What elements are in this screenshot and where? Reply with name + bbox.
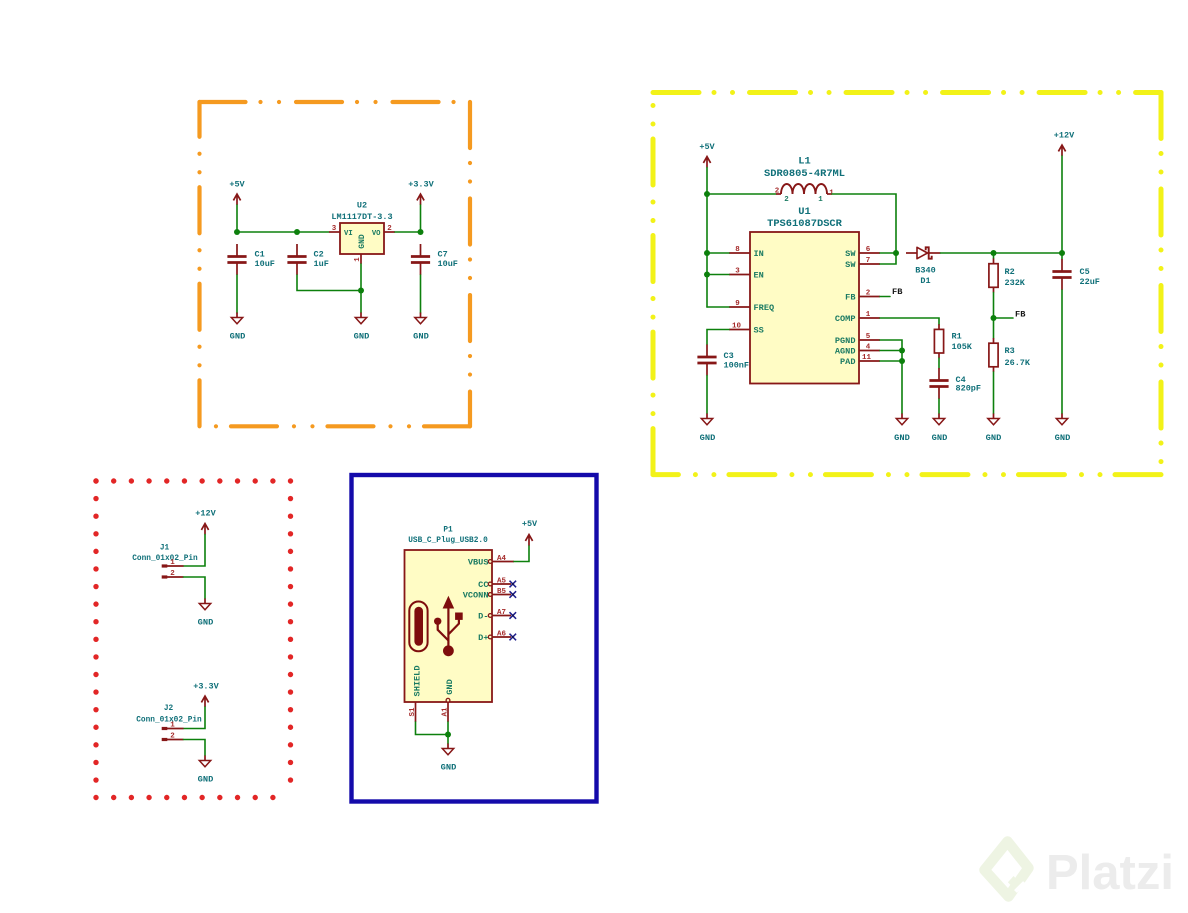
svg-text:+3.3V: +3.3V (408, 179, 434, 189)
connector J2 Conn_01x02_Pin (136, 705, 202, 725)
power +12V (J1) (195, 509, 216, 535)
wire FREQ (707, 306, 729, 308)
junction at IN (704, 250, 710, 256)
junction at C1 top (234, 229, 240, 235)
capacitor C2 (287, 244, 328, 275)
junction FB divider (991, 315, 997, 321)
resistor R3 (989, 338, 1031, 372)
wire SW6 (880, 252, 896, 254)
U1 pin 5 PGND (835, 333, 880, 346)
ground symbol C3 (700, 414, 716, 443)
Platzi watermark logo (985, 842, 1029, 897)
connector J1 Conn_01x02_Pin (132, 544, 198, 563)
junction at C7 top (418, 229, 424, 235)
svg-text:C5: C5 (1080, 267, 1090, 277)
svg-text:FB: FB (892, 287, 903, 297)
svg-text:CC: CC (478, 580, 488, 590)
svg-text:R1: R1 (952, 331, 962, 341)
ground symbol C7 (413, 313, 429, 342)
svg-text:26.7K: 26.7K (1005, 358, 1031, 368)
svg-text:IN: IN (754, 249, 764, 259)
svg-text:COMP: COMP (835, 314, 856, 324)
svg-text:6: 6 (866, 246, 871, 254)
junction at R2 top (991, 250, 997, 256)
P1 pin B5 VCONN (463, 588, 511, 600)
wire C3 to ground (706, 376, 708, 414)
P1 pin A5 CC (478, 578, 511, 590)
svg-text:P1: P1 (443, 526, 453, 534)
power +12V (boost output) (1054, 130, 1075, 156)
wire C5 to ground (1061, 290, 1063, 414)
red dotted section border frame (96, 481, 291, 798)
blue section border frame (352, 475, 597, 802)
svg-text:R3: R3 (1005, 346, 1015, 356)
svg-text:8: 8 (735, 246, 740, 254)
junction PAD (899, 358, 905, 364)
svg-text:AGND: AGND (835, 346, 856, 356)
U1 pin 6 SW (845, 246, 880, 259)
wire PGND down (880, 340, 902, 414)
ground symbol J2 (198, 756, 214, 785)
svg-text:1uF: 1uF (314, 259, 329, 269)
svg-text:SW: SW (845, 260, 856, 270)
power +3.3V (J2) (193, 682, 219, 707)
wire J2 pin 2 to ground (184, 740, 206, 756)
svg-text:5: 5 (866, 333, 871, 341)
wire +5V rail vertical (706, 168, 708, 308)
svg-text:VBUS: VBUS (468, 557, 489, 567)
junction AGND (899, 348, 905, 354)
svg-text:EN: EN (754, 270, 764, 280)
svg-text:B340: B340 (915, 265, 935, 275)
op-amp U1 TPS61087DSCR body (750, 206, 859, 384)
svg-text:GND: GND (198, 775, 214, 785)
svg-text:J2: J2 (164, 705, 174, 713)
svg-text:820pF: 820pF (956, 383, 982, 393)
U1 pin 3 EN (729, 268, 764, 281)
wire FB stub (880, 296, 890, 298)
svg-text:J1: J1 (160, 544, 170, 552)
svg-text:R2: R2 (1005, 267, 1015, 277)
wire +5V to input rail (236, 205, 238, 232)
wire C4 to ground (938, 399, 940, 414)
svg-text:3: 3 (735, 268, 740, 276)
ground symbol J1 (198, 599, 214, 628)
svg-text:SW: SW (845, 249, 856, 259)
svg-text:C2: C2 (314, 249, 324, 259)
U1 pin 8 IN (729, 246, 764, 259)
svg-text:D+: D+ (478, 633, 488, 643)
svg-text:C3: C3 (724, 351, 734, 361)
op-amp U2 LM1117DT-3.3 body (331, 200, 392, 254)
svg-text:+12V: +12V (1054, 130, 1075, 140)
svg-text:GND: GND (413, 331, 429, 341)
wire diode to output node (941, 252, 1063, 254)
ground symbol PGND (894, 414, 910, 443)
wire EN (707, 274, 729, 276)
svg-text:GND: GND (1055, 433, 1071, 443)
svg-text:A1: A1 (442, 707, 450, 717)
wire IN (707, 252, 729, 254)
capacitor C3 (697, 345, 749, 376)
J2 pin 1 (162, 722, 184, 731)
U1 pin 2 FB (845, 290, 880, 303)
J1 pin 1 (162, 559, 184, 568)
wire +3.3V to rail (420, 205, 422, 232)
ground symbol C4 (932, 414, 948, 443)
svg-text:232K: 232K (1005, 278, 1026, 288)
svg-text:B5: B5 (497, 588, 507, 596)
wire SW7 up to SW node (880, 253, 896, 264)
svg-text:1: 1 (170, 722, 175, 730)
wire R3 to ground (993, 372, 995, 414)
P1 pin S1 SHIELD (409, 666, 422, 722)
svg-text:+3.3V: +3.3V (193, 682, 219, 692)
wire L1 to SW node (832, 194, 896, 253)
power +5V (boost input) (699, 142, 715, 168)
svg-text:FREQ: FREQ (754, 303, 775, 313)
svg-text:3: 3 (332, 225, 337, 233)
wire J1 pin 2 to ground (184, 577, 206, 599)
U1 pin 11 PAD (840, 354, 880, 367)
U2 pin 3 VI (329, 225, 353, 238)
svg-text:TPS61087DSCR: TPS61087DSCR (767, 218, 843, 230)
svg-text:SHIELD: SHIELD (413, 666, 423, 697)
svg-text:GND: GND (445, 679, 455, 694)
junction at L1 tap (704, 191, 710, 197)
svg-text:VO: VO (372, 230, 381, 238)
svg-text:VI: VI (344, 230, 353, 238)
svg-text:GND: GND (932, 433, 948, 443)
connector P1 USB_C_Plug_USB2.0 body (405, 526, 493, 702)
svg-text:PAD: PAD (840, 357, 855, 367)
wire A1 to gnd net (447, 722, 449, 744)
diode D1 B340 (906, 247, 941, 285)
wire COMP to R1 (880, 318, 939, 325)
ground symbol USB (441, 744, 457, 773)
USB trident icon (434, 596, 463, 656)
svg-text:A4: A4 (497, 555, 507, 563)
wire to L1 (707, 193, 776, 195)
svg-text:U1: U1 (798, 206, 810, 218)
wire C7 to ground (420, 275, 422, 313)
svg-text:2: 2 (170, 733, 175, 741)
svg-text:Conn_01x02_Pin: Conn_01x02_Pin (132, 555, 198, 563)
wire VO to output rail (395, 231, 421, 233)
P1 pin A4 VBUS (468, 555, 514, 567)
svg-text:A6: A6 (497, 631, 507, 639)
svg-text:100nF: 100nF (724, 361, 750, 371)
svg-text:10uF: 10uF (438, 259, 458, 269)
wire C1 to ground (236, 275, 238, 313)
U1 pin 4 AGND (835, 344, 880, 357)
svg-text:GND: GND (198, 618, 214, 628)
wire +12V rail (1061, 156, 1063, 259)
U2 pin 1 GND (354, 234, 367, 264)
power +5V (U2 input) (229, 179, 245, 205)
svg-text:GND: GND (986, 433, 1002, 443)
wire FB stub right (994, 317, 1014, 319)
svg-text:4: 4 (866, 344, 871, 352)
P1 pin A1 GND (442, 679, 455, 722)
svg-text:2: 2 (866, 290, 871, 298)
svg-text:FB: FB (845, 292, 855, 302)
svg-text:GND: GND (358, 234, 367, 249)
USB-C capsule icon (409, 602, 427, 652)
svg-text:2: 2 (170, 570, 175, 578)
capacitor C5 (1052, 259, 1100, 290)
svg-text:2: 2 (387, 225, 392, 233)
no-connect VCONN (510, 591, 517, 598)
svg-text:GND: GND (441, 763, 457, 773)
svg-text:GND: GND (230, 331, 246, 341)
svg-text:1: 1 (354, 257, 362, 262)
svg-text:SS: SS (754, 325, 764, 335)
capacitor C1 (227, 244, 275, 275)
svg-text:A5: A5 (497, 578, 507, 586)
wire U2 gnd pin down (360, 264, 362, 313)
svg-text:USB_C_Plug_USB2.0: USB_C_Plug_USB2.0 (408, 537, 488, 545)
svg-text:1: 1 (866, 311, 871, 319)
wire R1 to C4 (938, 358, 940, 368)
svg-text:22uF: 22uF (1080, 277, 1100, 287)
svg-text:7: 7 (866, 257, 871, 265)
svg-text:105K: 105K (952, 342, 973, 352)
junction at C2 top (294, 229, 300, 235)
svg-text:S1: S1 (409, 707, 417, 717)
junction USB gnd (445, 732, 451, 738)
svg-text:1: 1 (818, 196, 823, 204)
orange section border frame (200, 102, 471, 426)
yellow section border frame (653, 93, 1161, 475)
J1 pin 2 (162, 570, 184, 579)
junction at U2 gnd (358, 288, 364, 294)
svg-text:U2: U2 (357, 200, 367, 210)
P1 pin A6 D+ (478, 631, 511, 643)
U1 pin 10 SS (729, 323, 764, 336)
svg-text:1: 1 (170, 559, 175, 567)
ground symbol C1 (230, 313, 246, 342)
svg-text:A7: A7 (497, 609, 506, 617)
svg-text:2: 2 (784, 196, 789, 204)
svg-text:PGND: PGND (835, 336, 856, 346)
ground symbol U2 (354, 313, 370, 342)
U1 pin 1 COMP (835, 311, 880, 324)
svg-text:GND: GND (354, 331, 370, 341)
inductor L1 SDR0805-4R7ML (764, 155, 845, 194)
no-connect D+ (510, 634, 517, 641)
svg-text:2: 2 (775, 188, 780, 196)
svg-text:LM1117DT-3.3: LM1117DT-3.3 (331, 212, 392, 222)
svg-text:9: 9 (735, 300, 740, 308)
svg-text:SDR0805-4R7ML: SDR0805-4R7ML (764, 168, 845, 180)
resistor R2 (989, 259, 1026, 293)
svg-text:GND: GND (700, 433, 716, 443)
U1 pin 9 FREQ (729, 300, 774, 313)
junction at SW node (893, 250, 899, 256)
svg-text:11: 11 (862, 354, 872, 362)
wire AGND (880, 350, 902, 352)
svg-text:10uF: 10uF (255, 259, 275, 269)
power +3.3V (U2 output) (408, 179, 434, 205)
U1 pin 7 SW (845, 257, 880, 270)
wire R2 to R3 (993, 293, 995, 339)
wire +12V to J1 pin 1 (184, 535, 206, 567)
resistor R1 (934, 324, 972, 358)
wire C2 bottom to U2 gnd net (297, 275, 361, 291)
svg-text:GND: GND (894, 433, 910, 443)
svg-text:C1: C1 (255, 249, 265, 259)
J2 pin 2 (162, 733, 184, 742)
svg-text:10: 10 (732, 323, 742, 331)
wire R2 top stub (993, 253, 995, 259)
wire VBUS to +5V (514, 546, 529, 562)
svg-text:VCONN: VCONN (463, 590, 489, 600)
ground symbol R3 (986, 414, 1002, 443)
svg-text:+5V: +5V (229, 179, 245, 189)
junction at EN (704, 272, 710, 278)
P1 pin A7 D- (478, 609, 511, 621)
capacitor C4 (929, 368, 981, 399)
svg-text:D-: D- (478, 611, 488, 621)
U2 pin 2 VO (372, 225, 395, 238)
wire input rail horizontal (237, 231, 329, 233)
svg-text:+12V: +12V (195, 509, 216, 519)
junction at C5 top (1059, 250, 1065, 256)
ground symbol C5 (1055, 414, 1071, 443)
wire shield to gnd net (416, 722, 449, 735)
svg-text:D1: D1 (920, 276, 930, 286)
svg-text:L1: L1 (798, 155, 810, 167)
power +5V (USB) (522, 519, 538, 545)
svg-text:Platzi: Platzi (1046, 846, 1174, 900)
svg-text:+5V: +5V (522, 519, 538, 529)
wire +3.3V to J2 pin 1 (184, 707, 206, 729)
no-connect CC (510, 581, 517, 588)
no-connect D- (510, 612, 517, 619)
svg-text:Conn_01x02_Pin: Conn_01x02_Pin (136, 716, 202, 724)
svg-text:+5V: +5V (699, 142, 715, 152)
wire PAD (880, 360, 902, 362)
svg-text:FB: FB (1015, 310, 1026, 320)
svg-text:C7: C7 (438, 249, 448, 259)
wire SS to C3 (707, 330, 729, 345)
capacitor C7 (411, 244, 458, 275)
